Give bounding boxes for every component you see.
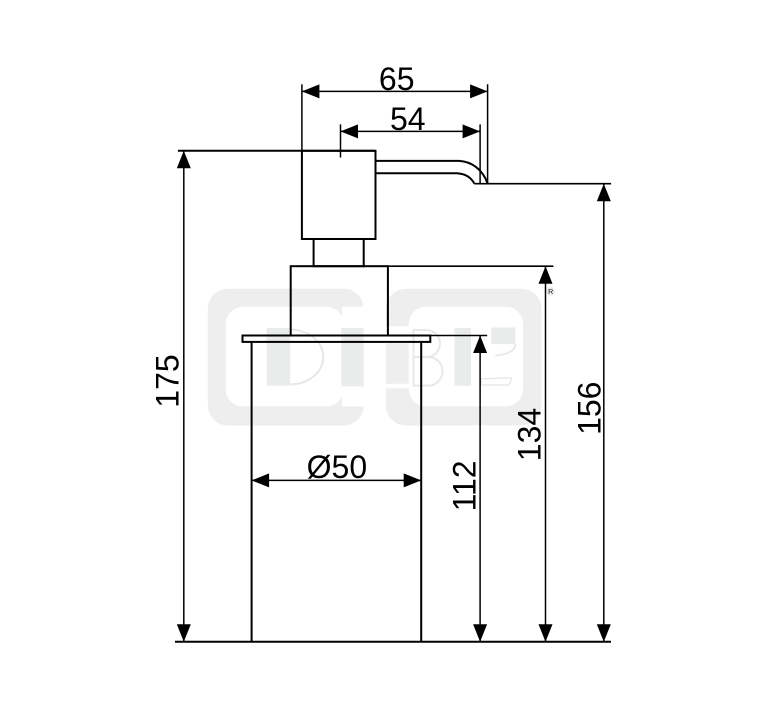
spout mouth extension line to 156 xyxy=(474,183,611,185)
watermark letter D xyxy=(267,328,324,386)
dimension D50 line xyxy=(252,473,422,487)
svg-text:65: 65 xyxy=(379,61,415,97)
spout outer wall xyxy=(376,161,488,184)
lid plate xyxy=(243,336,431,342)
svg-text:R: R xyxy=(548,289,553,296)
watermark logo ring 2 xyxy=(385,289,542,426)
extension line 65 left above head xyxy=(301,84,303,157)
extension line 65 right xyxy=(487,84,489,183)
dimension 65 line xyxy=(302,84,488,98)
dimension 134 line xyxy=(539,266,553,642)
bottle cylinder right wall xyxy=(420,342,422,642)
dimension 112 line xyxy=(473,336,487,642)
svg-text:134: 134 xyxy=(512,408,548,461)
watermark logo ring 1 xyxy=(208,289,365,426)
watermark letter L stem xyxy=(454,328,471,386)
watermark letter I xyxy=(341,328,363,386)
extension line 112 at plate top xyxy=(430,335,487,337)
svg-text:156: 156 xyxy=(572,382,608,435)
spout inner wall xyxy=(376,173,475,183)
watermark letter B xyxy=(414,330,443,386)
collar top extension line to 134 xyxy=(388,265,554,267)
svg-text:175: 175 xyxy=(149,354,185,407)
dimension 54 line xyxy=(341,124,481,138)
watermark apostrophe xyxy=(491,328,515,356)
bottle cylinder left wall xyxy=(251,342,253,642)
extension line 54 left xyxy=(340,124,342,157)
svg-text:54: 54 xyxy=(390,101,426,137)
extension line 54 right xyxy=(479,124,481,183)
head top line with 175 extension xyxy=(178,150,376,152)
watermark registered mark xyxy=(547,288,554,296)
shoulder collar xyxy=(291,266,388,335)
pump head body xyxy=(302,151,376,239)
svg-text:Ø50: Ø50 xyxy=(307,449,367,485)
svg-text:112: 112 xyxy=(447,460,483,511)
dimension 156 line xyxy=(597,184,611,642)
watermark letter L foot xyxy=(481,378,511,385)
dimension 175 line xyxy=(177,151,191,642)
pump neck xyxy=(314,239,364,266)
bottom base extension line xyxy=(175,641,611,643)
